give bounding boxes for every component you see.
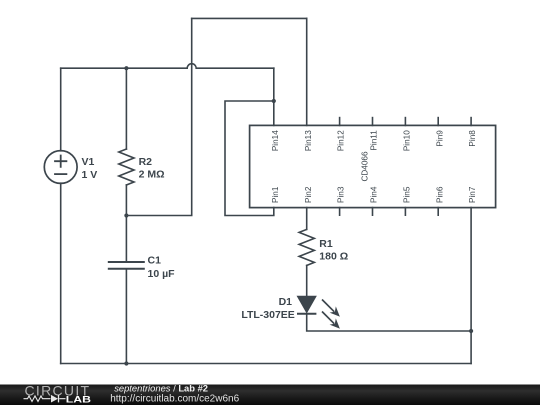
resistor R2 zigzag <box>119 149 134 185</box>
wire top rail (Pin13 to crossover vertical) <box>192 17 307 19</box>
junction dot C1 bottom rail <box>124 361 128 365</box>
junction dot R2 bottom / C1 top <box>124 213 128 217</box>
svg-text:Pin14: Pin14 <box>271 130 280 151</box>
wire bottom rail <box>61 363 471 365</box>
resistor R1 zigzag <box>299 229 314 265</box>
wire Pin2 down from IC <box>306 208 308 230</box>
pin stub Pin10 <box>404 118 406 126</box>
svg-text:Pin9: Pin9 <box>435 130 444 147</box>
svg-text:Pin6: Pin6 <box>435 186 444 203</box>
wire Pin13 vertical <box>306 18 308 125</box>
capacitor C1 plates <box>109 261 144 263</box>
svg-text:Pin11: Pin11 <box>370 130 379 151</box>
svg-text:Pin10: Pin10 <box>403 130 412 151</box>
pin stub Pin6 <box>437 208 439 216</box>
wire R1 bottom to LED <box>306 265 308 296</box>
svg-text:R1: R1 <box>319 238 333 250</box>
wire R2 bottom to C1 <box>125 185 127 262</box>
svg-text:LAB: LAB <box>66 395 91 405</box>
wire Pin1 loop (Pin14 junction to Pin1) <box>225 101 274 216</box>
svg-text:Pin8: Pin8 <box>468 130 477 147</box>
svg-text:LTL-307EE: LTL-307EE <box>241 309 294 321</box>
wire LED bottom, corner right to Pin7 column <box>307 314 471 331</box>
wire vertical x=191.7 down to R2 bottom level then left <box>126 18 191 215</box>
LED arrow 2 <box>322 312 339 328</box>
pin stub Pin3 <box>339 208 341 216</box>
svg-text:Pin2: Pin2 <box>304 186 313 203</box>
pin stub Pin12 <box>339 118 341 126</box>
svg-text:Pin7: Pin7 <box>468 186 477 203</box>
svg-text:septentriones / Lab #2: septentriones / Lab #2 <box>114 382 208 393</box>
pin stub Pin5 <box>404 208 406 216</box>
pin stub Pin9 <box>437 118 439 126</box>
pin stub Pin4 <box>372 208 374 216</box>
svg-text:V1: V1 <box>82 156 95 168</box>
IC U1 body CD4066 <box>250 125 496 207</box>
pin stub Pin11 <box>372 118 374 126</box>
svg-text:R2: R2 <box>139 156 153 168</box>
svg-text:CD4066: CD4066 <box>361 151 370 181</box>
junction dot LED / Pin7 wire <box>469 329 473 333</box>
wire Pin14 vertical from rail to IC <box>273 68 275 125</box>
LED arrow 1 <box>322 300 339 316</box>
junction dot R2 top rail <box>124 66 128 70</box>
wire rail y=68.2 with hop over x=191.7 <box>61 64 274 69</box>
wire V1 bottom to bottom rail <box>60 183 62 363</box>
svg-text:http://circuitlab.com/ce2w6n6: http://circuitlab.com/ce2w6n6 <box>110 394 239 405</box>
svg-text:Pin3: Pin3 <box>337 186 346 203</box>
svg-text:2 MΩ: 2 MΩ <box>139 168 165 180</box>
svg-text:Pin13: Pin13 <box>304 130 313 151</box>
svg-text:1 V: 1 V <box>82 169 98 181</box>
svg-text:Pin5: Pin5 <box>403 186 412 203</box>
svg-text:Pin1: Pin1 <box>271 186 280 203</box>
svg-text:C1: C1 <box>148 255 162 267</box>
svg-text:Pin4: Pin4 <box>370 186 379 203</box>
LED D1 cathode bar <box>297 313 316 315</box>
voltage source V1 circle <box>44 151 77 184</box>
wire R2 top <box>125 68 127 149</box>
junction dot Pin14 branch <box>272 99 276 103</box>
svg-text:10 µF: 10 µF <box>148 268 176 280</box>
V1 plus sign <box>55 156 66 167</box>
wire Pin7 vertical down to bottom rail <box>470 208 472 364</box>
LED D1 triangle <box>297 296 316 312</box>
V1 minus sign <box>55 173 66 175</box>
logo resistor-diode glyph <box>24 395 66 402</box>
svg-text:180 Ω: 180 Ω <box>319 250 348 262</box>
wire V1 top <box>60 68 62 151</box>
pin stub Pin8 <box>470 118 472 126</box>
svg-text:Pin12: Pin12 <box>337 130 346 151</box>
wire C1 bottom <box>125 269 127 364</box>
svg-text:D1: D1 <box>279 296 293 308</box>
